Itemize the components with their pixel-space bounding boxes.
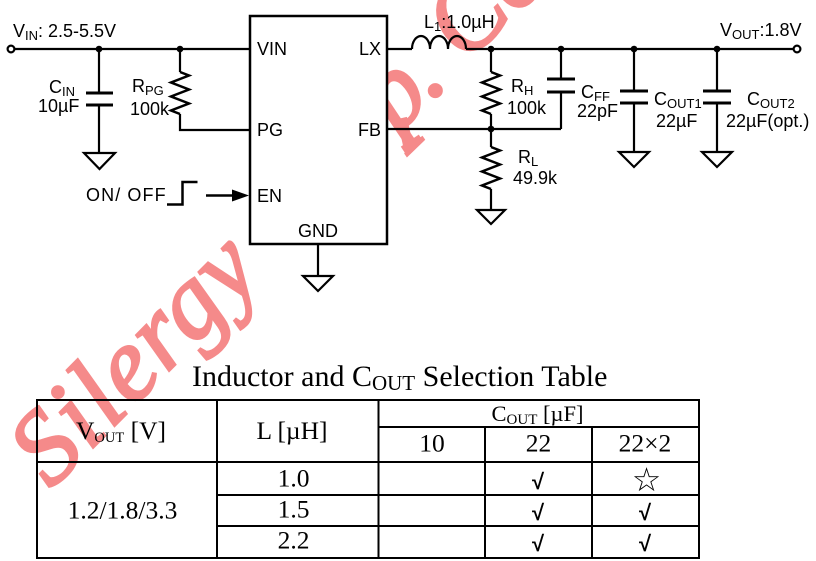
svg-text:100k: 100k (507, 98, 547, 118)
svg-text:100k: 100k (130, 99, 170, 119)
svg-text:22µF(opt.): 22µF(opt.) (726, 111, 809, 131)
wire: RL branch down (490, 129, 492, 147)
svg-text:√: √ (639, 500, 652, 525)
arrowhead EN (232, 190, 249, 202)
resistor R_H (482, 72, 500, 114)
table column divider 3 (484, 427, 486, 558)
svg-text:√: √ (639, 531, 652, 556)
table outer border (37, 400, 699, 558)
wire: COUT2 to ground (716, 104, 718, 152)
table row line under COUT header (379, 426, 700, 428)
node: VIN/CIN junction (96, 46, 103, 53)
wire: CIN branch down (98, 49, 100, 92)
svg-text:22: 22 (526, 429, 552, 458)
svg-text:ON/ OFF: ON/ OFF (86, 185, 167, 205)
svg-text:22µF: 22µF (656, 111, 697, 131)
wire: VIN rail to IC VIN pin (15, 48, 251, 50)
svg-text:RH: RH (511, 76, 533, 98)
svg-text:RPG: RPG (132, 76, 164, 98)
svg-text:1.2/1.8/3.3: 1.2/1.8/3.3 (68, 496, 178, 525)
inductor L1 (412, 36, 466, 49)
wire: inductor to VOUT terminal (466, 48, 794, 50)
wire: RH branch down (490, 49, 492, 72)
svg-text:2.2: 2.2 (278, 526, 310, 555)
wire: COUT1 branch down (633, 49, 635, 90)
table row line under header row (37, 461, 699, 463)
IC U1 (250, 16, 387, 244)
capacitor C_FF (547, 79, 575, 92)
ground (COUT1) (619, 152, 649, 167)
svg-text:COUT2: COUT2 (747, 89, 795, 111)
table row line 2 (217, 525, 699, 527)
table column divider 1 (216, 400, 218, 558)
svg-text:22pF: 22pF (577, 101, 618, 121)
ground (COUT2) (702, 152, 732, 167)
arrow to EN (206, 194, 234, 197)
node: LX/RH junction (488, 46, 495, 53)
table: Inductor and COUT selection (37, 400, 699, 558)
svg-text:1.0: 1.0 (278, 464, 310, 493)
svg-text:VOUT:1.8V: VOUT:1.8V (720, 20, 802, 42)
wire: RL to ground (490, 189, 492, 210)
svg-text:VIN: 2.5-5.5V: VIN: 2.5-5.5V (13, 21, 116, 43)
table title: Inductor and COUT Selection Table (192, 360, 607, 395)
svg-text:RL: RL (518, 147, 538, 169)
svg-text:COUT1: COUT1 (654, 89, 702, 111)
resistor R_PG (171, 72, 189, 114)
capacitor C_IN (86, 93, 113, 105)
svg-text:L [µH]: L [µH] (256, 416, 327, 445)
svg-text:EN: EN (257, 186, 282, 206)
svg-text:☆: ☆ (632, 461, 662, 498)
wire: FB pin to CFF bottom (387, 128, 561, 130)
wire: RPG to PG pin (180, 114, 250, 130)
wire: COUT1 to ground (633, 104, 635, 152)
svg-text:Inductor and COUT Selection Ta: Inductor and COUT Selection Table (192, 360, 607, 395)
watermark p descender (402, 118, 408, 145)
svg-text:22×2: 22×2 (619, 429, 672, 458)
capacitor C_OUT2 (703, 91, 731, 103)
wire: CFF bottom to FB wire (560, 93, 562, 129)
node: FB/RH/RL junction (488, 126, 495, 133)
ON/OFF step symbol (167, 182, 198, 205)
input terminal VIN (8, 46, 15, 53)
resistor R_L (482, 147, 500, 189)
ground (IC GND) (303, 276, 333, 291)
node: VIN/RPG junction (177, 46, 184, 53)
ground (RL) (477, 210, 505, 224)
wire: CFF branch down (560, 49, 562, 78)
node: COUT2 junction (714, 46, 721, 53)
svg-text:PG: PG (257, 120, 283, 140)
svg-text:√: √ (532, 469, 545, 494)
node: CFF top junction (558, 46, 565, 53)
svg-text:LX: LX (359, 39, 381, 59)
node: COUT1 junction (631, 46, 638, 53)
table row line 1 (217, 494, 699, 496)
wire: GND pin down (317, 244, 319, 276)
svg-text:√: √ (532, 500, 545, 525)
wire: CIN to ground (98, 106, 100, 153)
table column divider 4 (591, 427, 593, 558)
svg-text:49.9k: 49.9k (513, 168, 558, 188)
svg-text:VIN: VIN (257, 39, 287, 59)
svg-text:√: √ (532, 531, 545, 556)
svg-text:COUT [µF]: COUT [µF] (492, 401, 584, 428)
svg-text:GND: GND (298, 221, 338, 241)
ground (CIN) (84, 153, 115, 169)
watermark (0, 0, 624, 506)
capacitor C_OUT1 (620, 91, 648, 103)
wire: RPG branch down (179, 49, 181, 72)
wire: RH to FB node (490, 114, 492, 129)
table column divider 2 (378, 400, 380, 558)
svg-text:FB: FB (358, 120, 381, 140)
output terminal VOUT (794, 46, 801, 53)
svg-text:1.5: 1.5 (278, 495, 310, 524)
svg-text:10: 10 (419, 429, 445, 458)
wire: COUT2 branch down (716, 49, 718, 90)
wire: LX to inductor (387, 48, 412, 50)
svg-text:10µF: 10µF (38, 96, 79, 116)
